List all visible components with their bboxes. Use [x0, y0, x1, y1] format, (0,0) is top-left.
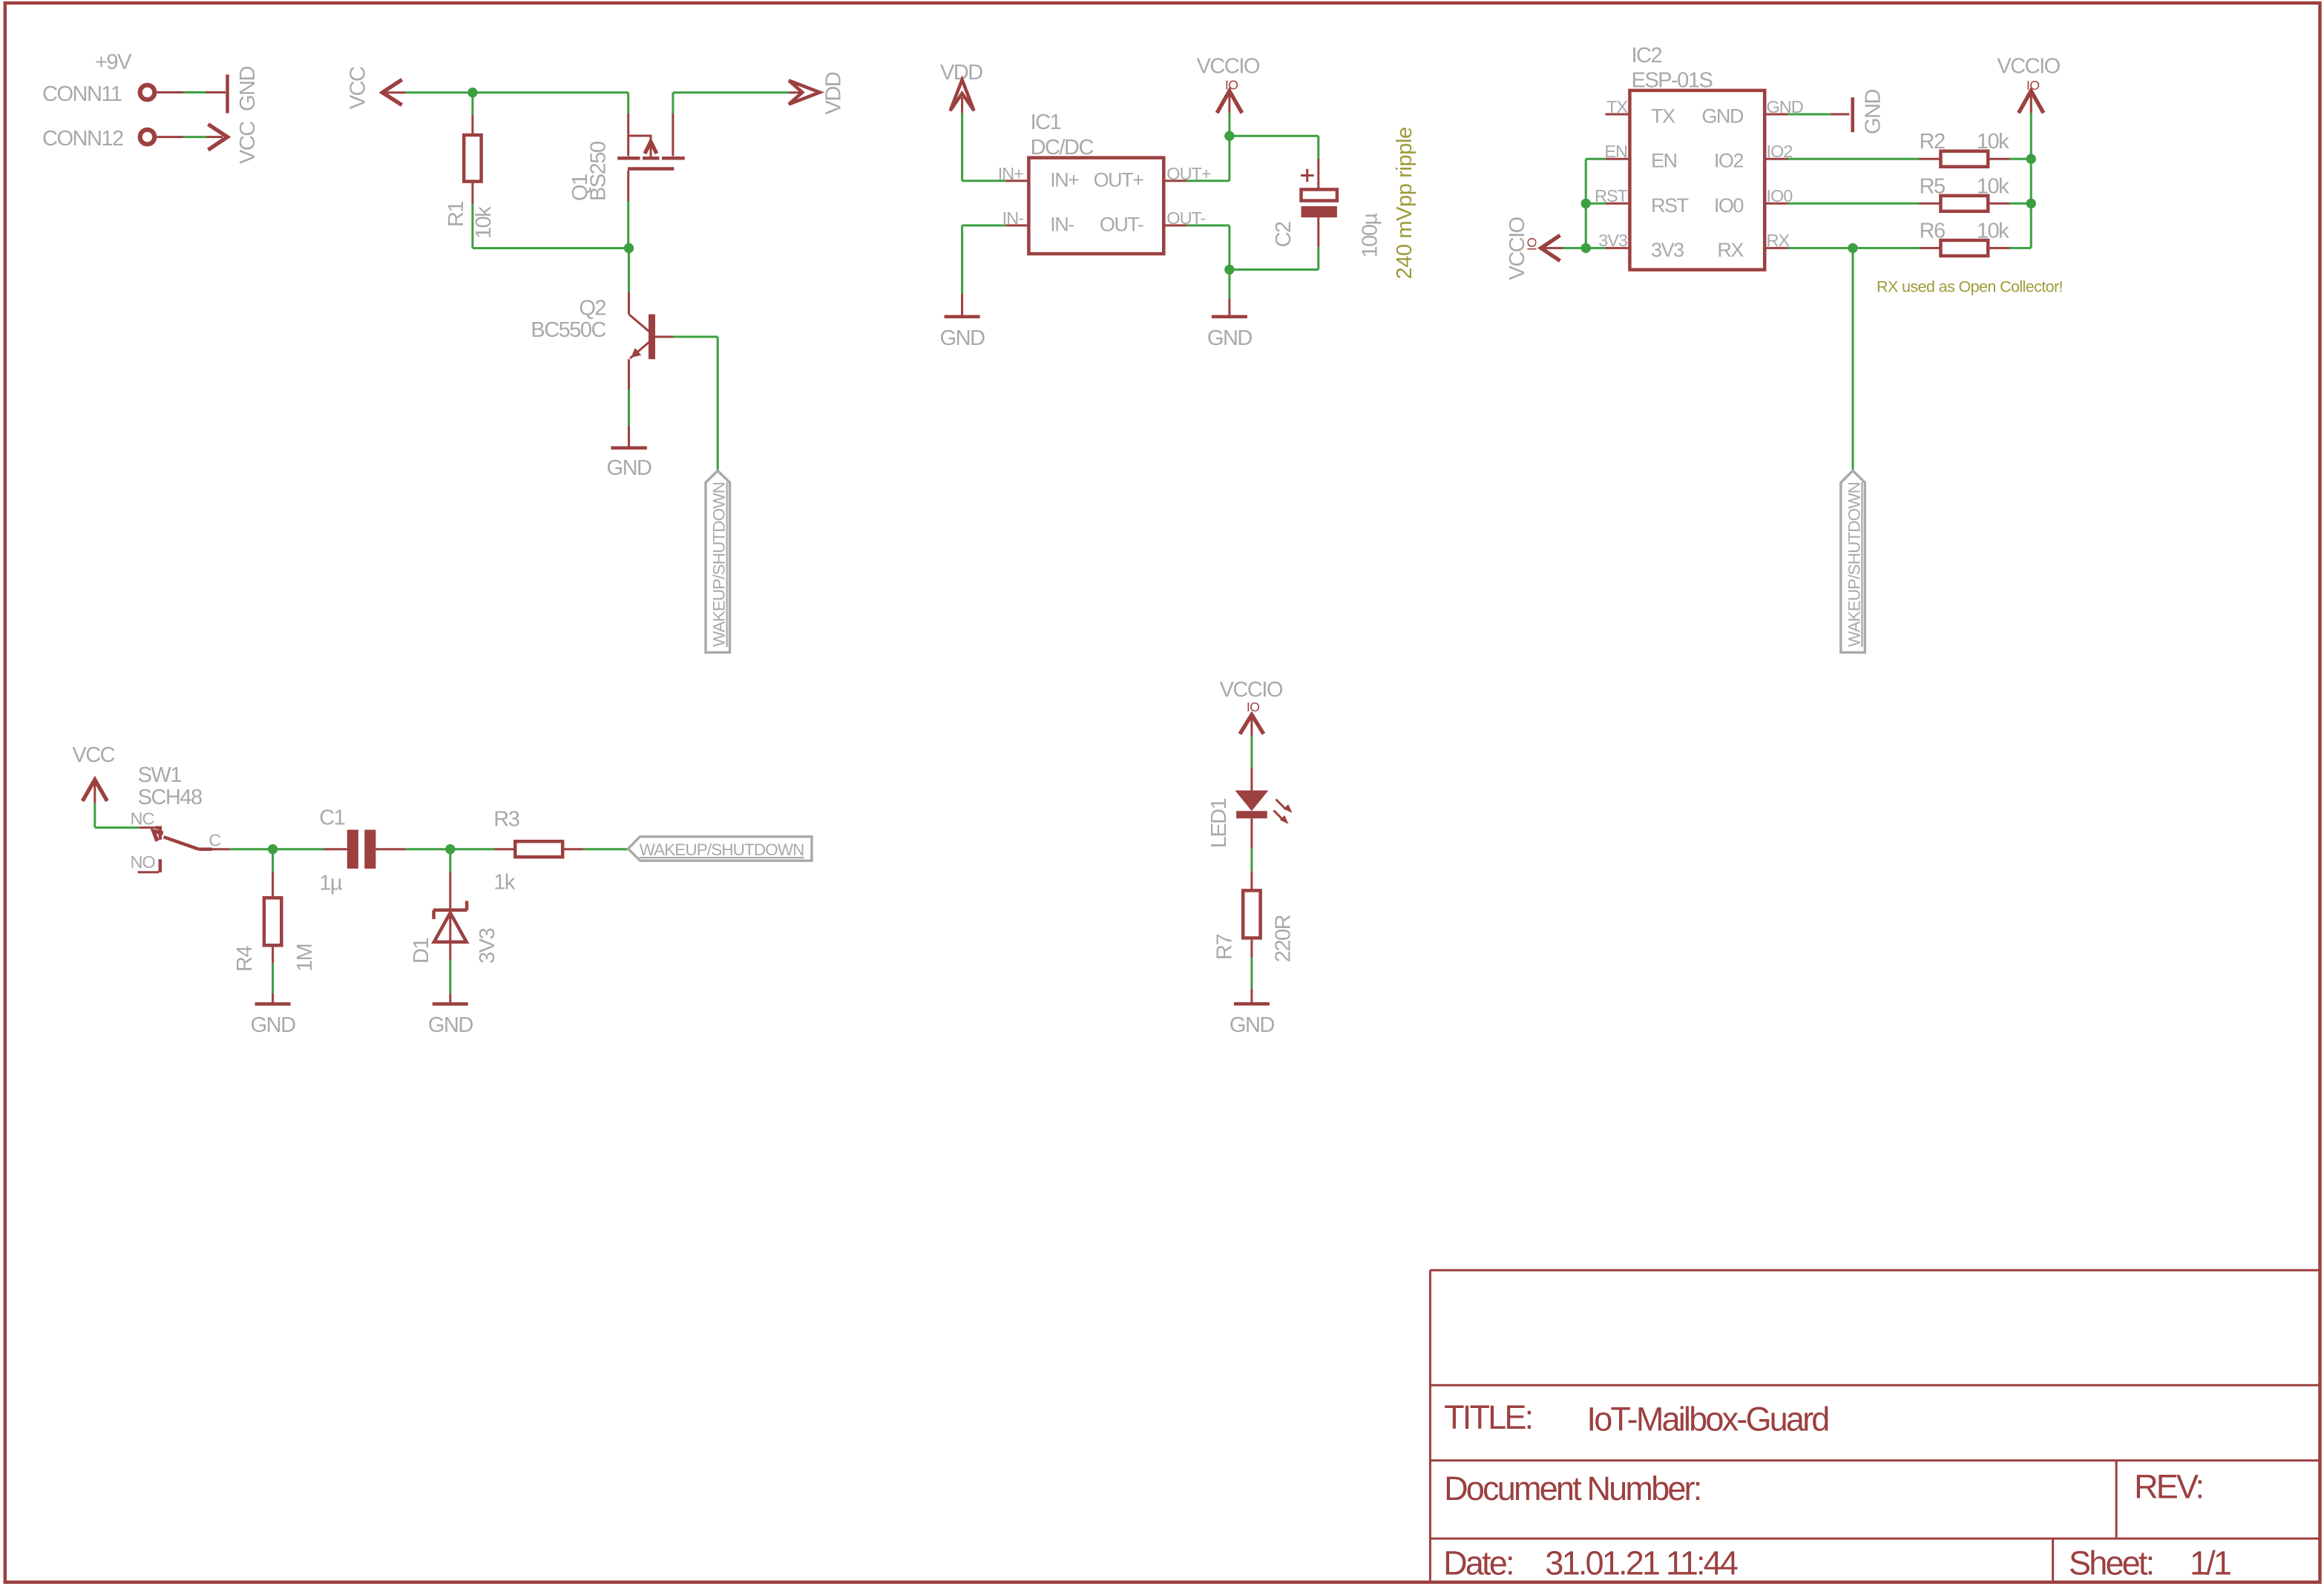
svg-text:IC1: IC1 — [1031, 111, 1061, 134]
SW1 lever — [164, 837, 199, 849]
svg-text:IN+: IN+ — [998, 164, 1024, 183]
supply VCC arrow (left) — [382, 79, 401, 105]
node junction R5/VCCIO — [2026, 199, 2036, 208]
svg-text:GND: GND — [940, 326, 985, 350]
SW1 NC contact — [139, 826, 157, 829]
pin RST — [1605, 203, 1629, 205]
svg-text:VCCIO: VCCIO — [1997, 55, 2060, 79]
ground GND under IN- — [945, 315, 980, 319]
resistor R1 — [464, 135, 481, 182]
wire junction down to R4 — [272, 849, 274, 872]
ground GND under C2 — [1212, 315, 1247, 319]
ground GND under R7 — [1234, 1002, 1270, 1006]
ground GND under R4 — [255, 1002, 291, 1006]
svg-text:C: C — [209, 831, 221, 850]
ground GND under D1 — [433, 1002, 468, 1006]
svg-text:NC: NC — [131, 809, 155, 829]
Q2 collector diagonal — [629, 315, 650, 332]
IC IC1 DC/DC box — [1028, 158, 1163, 254]
node junction C1/D1/R3 — [445, 844, 455, 854]
svg-text:SCH48: SCH48 — [138, 786, 202, 809]
resistor R6 — [1940, 240, 1988, 256]
svg-text:R1: R1 — [444, 202, 468, 227]
svg-text:220R: 220R — [1272, 915, 1296, 962]
svg-text:3V3: 3V3 — [1651, 239, 1684, 261]
svg-text:CONN11: CONN11 — [42, 82, 122, 106]
svg-text:IN+: IN+ — [1050, 169, 1079, 191]
pin IN- — [1005, 224, 1028, 226]
svg-text:Document Number:: Document Number: — [1444, 1470, 1700, 1507]
svg-text:NO: NO — [131, 852, 156, 872]
svg-text:D1: D1 — [410, 938, 433, 964]
pin OUT+ — [1163, 180, 1186, 182]
svg-text:BC550C: BC550C — [531, 318, 605, 342]
svg-text:10k: 10k — [1977, 130, 2009, 154]
wire RX to R6 — [1788, 247, 1920, 249]
diode D1 zener 3V3 — [433, 901, 467, 942]
svg-text:GND: GND — [428, 1013, 473, 1037]
wire junction to C2 — [1230, 135, 1319, 137]
node junction OUT-/C2/GND — [1224, 265, 1234, 274]
wire RST — [1586, 203, 1605, 205]
svg-text:1M: 1M — [293, 944, 317, 972]
pin GND — [1765, 113, 1788, 116]
svg-text:GND: GND — [1230, 1013, 1275, 1037]
svg-text:IN-: IN- — [1050, 214, 1074, 236]
capacitor C2 — [1301, 189, 1337, 200]
svg-text:SW1: SW1 — [138, 763, 182, 787]
wire EN loop — [1586, 158, 1605, 160]
wire C to junction — [230, 848, 273, 850]
Q1 left pin (drain) — [627, 93, 629, 113]
capacitor C1 — [347, 830, 358, 869]
svg-text:LED1: LED1 — [1207, 798, 1231, 848]
node junction 3V3 — [1581, 243, 1591, 253]
wire GND pin to ground — [1788, 113, 1831, 116]
wire VDD to IN+ — [961, 97, 963, 113]
wire R1 bottom to gate junction — [471, 182, 473, 204]
node junction VCC/R1 — [467, 88, 477, 97]
net flag WAKEUP/SHUTDOWN (vertical right) — [1841, 471, 1865, 653]
wire VCC to Q1 — [383, 91, 405, 93]
svg-text:EN: EN — [1604, 142, 1627, 161]
node junction VCCIO/C2 — [1224, 131, 1234, 141]
svg-text:VCCIO: VCCIO — [1197, 55, 1260, 79]
svg-text:10k: 10k — [472, 206, 496, 239]
ground GND under Q2 — [611, 447, 647, 450]
node junction R2/VCCIO — [2026, 154, 2036, 164]
svg-text:R5: R5 — [1920, 174, 1945, 198]
svg-text:BS250: BS250 — [587, 142, 611, 201]
wire Q1 source to VDD — [673, 91, 789, 93]
wire junction to Q2 collector — [628, 249, 630, 293]
svg-text:VCCIO: VCCIO — [1220, 678, 1283, 702]
svg-text:WAKEUP/SHUTDOWN: WAKEUP/SHUTDOWN — [710, 482, 729, 647]
svg-text:IO0: IO0 — [1714, 194, 1744, 217]
svg-text:CONN12: CONN12 — [42, 127, 123, 151]
svg-text:RX used as Open Collector!: RX used as Open Collector! — [1877, 278, 2063, 296]
SW1 C terminal — [199, 847, 212, 851]
pin IO0 — [1765, 203, 1788, 205]
wire junction down to D1 — [449, 849, 451, 872]
wire OUT- to GND junction — [1187, 224, 1230, 226]
wire OUT+ to junction column — [1187, 180, 1230, 182]
svg-text:VCC: VCC — [72, 743, 114, 767]
pin IO2 — [1765, 158, 1788, 160]
LED light arrows — [1276, 800, 1287, 810]
svg-text:REV:: REV: — [2134, 1467, 2202, 1505]
node junction RX — [1848, 243, 1857, 253]
Q1 gate pin — [627, 171, 629, 201]
svg-text:GND: GND — [1207, 326, 1253, 350]
IC IC2 ESP-01S box — [1629, 91, 1765, 270]
resistor R4 — [264, 898, 281, 945]
svg-text:EN: EN — [1651, 150, 1677, 172]
svg-text:10k: 10k — [1977, 174, 2009, 198]
capacitor C2 plus sign — [1301, 174, 1314, 177]
svg-text:Date:: Date: — [1443, 1544, 1513, 1582]
supply VCCIO arrow (left) at 3V3 — [1541, 235, 1560, 260]
Q1 channel bars — [617, 157, 640, 160]
svg-text:GND: GND — [236, 67, 260, 112]
svg-text:R4: R4 — [233, 946, 257, 972]
Q2 base bar — [649, 315, 655, 360]
wire junction to R3 — [450, 848, 495, 850]
Q2 emitter pin — [628, 359, 630, 389]
Q2 base wire — [655, 336, 673, 338]
svg-text:WAKEUP/SHUTDOWN: WAKEUP/SHUTDOWN — [1845, 482, 1863, 647]
net flag WAKEUP/SHUTDOWN (horizontal) — [628, 837, 813, 861]
wire C2 bottom to GND junction — [1317, 217, 1319, 247]
svg-text:3V3: 3V3 — [476, 929, 499, 964]
svg-text:RX: RX — [1717, 239, 1744, 261]
pin TX — [1605, 113, 1629, 116]
svg-text:RX: RX — [1767, 231, 1790, 250]
svg-text:IO: IO — [1525, 238, 1540, 251]
svg-text:GND: GND — [1701, 105, 1744, 128]
svg-text:IO2: IO2 — [1714, 150, 1744, 172]
svg-text:VDD: VDD — [821, 72, 845, 114]
ground GND (rotated) right of IC2 — [1851, 97, 1854, 132]
svg-text:VCC: VCC — [236, 122, 260, 164]
wire CONN12 to VCC — [157, 136, 184, 138]
wire CONN11 to GND — [157, 91, 184, 93]
supply VDD arrow (right dart) — [789, 81, 820, 105]
node junction SW1/R4/C1 — [268, 844, 278, 854]
svg-text:IoT-Mailbox-Guard: IoT-Mailbox-Guard — [1587, 1401, 1829, 1438]
wire 3V3 — [1563, 247, 1605, 249]
resistor R2 — [1940, 151, 1988, 167]
svg-text:TX: TX — [1651, 105, 1675, 128]
Q1 gate bar — [628, 167, 674, 171]
LED LED1 — [1235, 791, 1292, 824]
Q2 emitter diagonal with arrow — [630, 342, 649, 358]
svg-text:RST: RST — [1651, 194, 1689, 217]
svg-text:R3: R3 — [493, 807, 519, 831]
Q1 bulk connection — [628, 136, 651, 157]
svg-text:OUT+: OUT+ — [1094, 169, 1143, 191]
ground GND (rotated) — [226, 75, 229, 113]
pin IN+ — [1005, 180, 1028, 182]
resistor R5 — [1940, 196, 1988, 211]
pin OUT- — [1163, 224, 1186, 226]
wire LED to R7 — [1250, 818, 1253, 848]
node junction RST — [1581, 199, 1591, 208]
svg-text:GND: GND — [1862, 90, 1885, 135]
svg-text:OUT-: OUT- — [1100, 214, 1143, 236]
pin RX — [1765, 247, 1788, 249]
wire IO2 to R2 — [1788, 158, 1920, 160]
svg-text:WAKEUP/SHUTDOWN: WAKEUP/SHUTDOWN — [640, 840, 804, 859]
svg-text:VCC: VCC — [347, 67, 370, 109]
pin 3V3 — [1605, 247, 1629, 249]
svg-text:R2: R2 — [1920, 130, 1945, 154]
wire junction to C1 — [273, 848, 324, 850]
supply VCC arrow (right) — [209, 125, 228, 151]
resistor R7 — [1243, 890, 1260, 938]
svg-text:TX: TX — [1606, 97, 1628, 116]
svg-text:R7: R7 — [1213, 935, 1237, 960]
svg-text:Sheet:: Sheet: — [2069, 1544, 2153, 1582]
wire RX junction down to flag — [1852, 248, 1854, 470]
svg-text:240 mVpp ripple: 240 mVpp ripple — [1393, 127, 1417, 279]
svg-text:ESP-01S: ESP-01S — [1632, 69, 1713, 93]
svg-text:GND: GND — [251, 1013, 296, 1037]
svg-text:1/1: 1/1 — [2190, 1544, 2231, 1582]
svg-text:IO: IO — [1225, 78, 1238, 93]
wire VCCIO down to junction — [1228, 93, 1230, 113]
svg-text:R6: R6 — [1920, 219, 1945, 243]
wire junction down to R1 — [471, 93, 473, 115]
wire IO0 to R5 — [1788, 203, 1920, 205]
svg-text:100µ: 100µ — [1359, 213, 1382, 258]
svg-text:1k: 1k — [493, 870, 516, 894]
svg-text:IC2: IC2 — [1632, 44, 1662, 68]
svg-text:31.01.21 11:44: 31.01.21 11:44 — [1545, 1544, 1738, 1582]
svg-text:+9V: +9V — [95, 50, 132, 74]
svg-text:1µ: 1µ — [319, 872, 343, 895]
svg-text:C2: C2 — [1272, 222, 1296, 247]
svg-text:C1: C1 — [319, 806, 344, 830]
svg-text:GND: GND — [607, 456, 652, 480]
Q1 right pin (source) — [672, 93, 674, 113]
svg-text:DC/DC: DC/DC — [1031, 136, 1094, 159]
net flag WAKEUP/SHUTDOWN (vertical) — [706, 471, 730, 653]
svg-text:10k: 10k — [1977, 219, 2009, 243]
node junction gate/Q2 — [624, 243, 634, 253]
svg-text:TITLE:: TITLE: — [1444, 1398, 1532, 1436]
svg-text:IO: IO — [1247, 700, 1259, 714]
title block frame — [1429, 1270, 1431, 1582]
wire IN- to GND — [962, 224, 1006, 226]
resistor R3 — [515, 841, 562, 857]
pin EN — [1605, 158, 1629, 160]
svg-text:Q2: Q2 — [579, 297, 605, 320]
